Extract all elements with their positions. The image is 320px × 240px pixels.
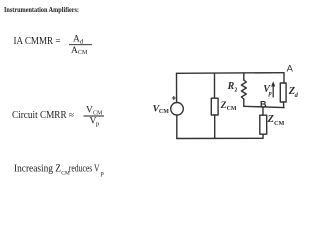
svg-text:Instrumentation Amplifiers:: Instrumentation Amplifiers: [4, 6, 79, 14]
wire: right branch upper (node A to Z_d box) [283, 73, 285, 83]
wire: bottom rail [177, 137, 263, 139]
svg-text:CM: CM [227, 106, 237, 112]
svg-text:Circuit CMRR ≈: Circuit CMRR ≈ [12, 110, 74, 121]
wire: left branch lower (source bottom to bottom rail) [176, 115, 178, 138]
wire: lower Z_CM box to bottom rail [262, 134, 264, 138]
impedance Z_CM (middle) box [211, 98, 218, 115]
svg-text:Z: Z [267, 114, 274, 125]
wire: right branch lower (Z_d box to node B rail) [283, 102, 285, 108]
fraction bar [69, 44, 92, 46]
wire: node B rail [244, 106, 284, 107]
svg-text:CM: CM [78, 50, 88, 56]
sentence: Increasing Z_CM reduces V_p [14, 164, 104, 177]
label Z_CM (middle) [220, 100, 237, 112]
svg-text:R: R [227, 81, 235, 92]
fraction bar [84, 115, 105, 117]
svg-text:Z: Z [220, 100, 227, 111]
svg-text:p: p [96, 121, 99, 128]
voltage source V_CM circle [171, 103, 184, 116]
arrow V_p [271, 81, 275, 97]
wire: middle branch upper (top rail to Z_CM box) [214, 73, 216, 98]
wire: left branch upper (source top to top rail) [176, 73, 178, 102]
svg-text:p: p [101, 170, 104, 177]
svg-text:2: 2 [234, 88, 237, 94]
label V_CM (source) [153, 104, 170, 116]
label V_p [263, 84, 271, 97]
wire: middle branch lower (Z_CM box to bottom rail) [214, 115, 216, 138]
wire: node B to lower Z_CM box [262, 108, 264, 116]
fraction numerator V_CM [86, 106, 103, 117]
svg-text:p: p [268, 90, 272, 97]
svg-text:A: A [73, 35, 80, 45]
svg-text:A: A [287, 62, 294, 73]
svg-text:CM: CM [159, 109, 169, 115]
wire: R2 branch upper (top rail to resistor) [243, 73, 245, 80]
resistor R2 zigzag [241, 80, 246, 99]
svg-text:A: A [71, 46, 78, 56]
svg-text:CM: CM [274, 120, 284, 127]
svg-text:V: V [86, 106, 93, 116]
fraction denominator V_p [90, 116, 100, 127]
label R_2 [227, 81, 238, 94]
svg-text:B: B [260, 99, 267, 109]
impedance Z_CM (lower) box [260, 115, 267, 134]
label Z_d [288, 86, 299, 99]
wire: R2 branch lower (resistor to node B rail) [243, 99, 245, 106]
fraction denominator A_CM [71, 46, 88, 56]
svg-text:IA CMMR =: IA CMMR = [14, 36, 61, 47]
svg-text:d: d [295, 92, 299, 99]
label Z_CM (lower) [267, 114, 285, 127]
svg-text:reduces V: reduces V [69, 164, 100, 175]
svg-text:Increasing Z: Increasing Z [14, 164, 61, 175]
plus sign of source [172, 96, 176, 100]
wire: top rail from source to node A [177, 72, 285, 75]
impedance Z_d box [280, 83, 286, 102]
fraction numerator A_d [73, 35, 84, 46]
